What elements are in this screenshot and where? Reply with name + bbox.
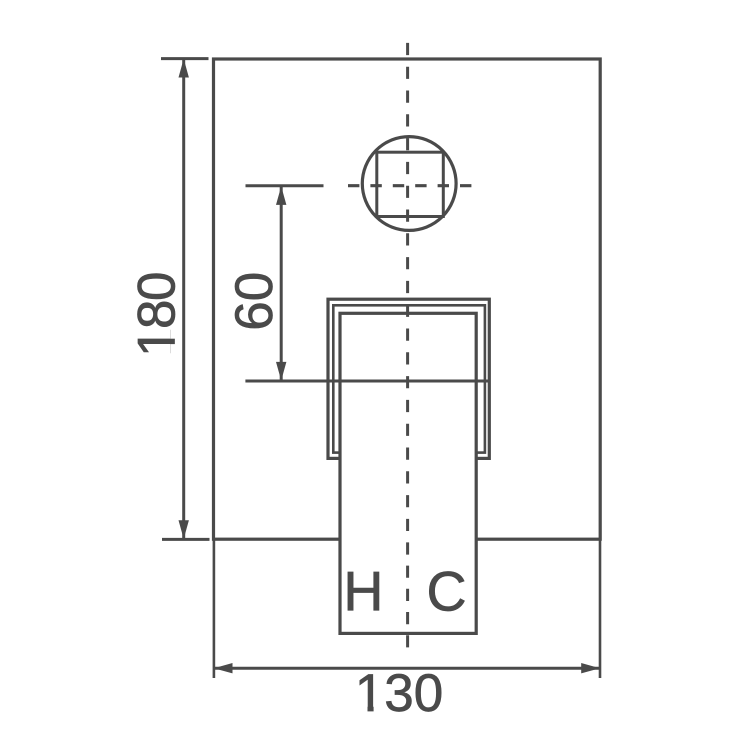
escutcheon outer square [328,299,489,458]
escutcheon inner square [333,305,485,452]
dimension 60 arrow up [276,186,286,205]
dimension 180 arrow down [179,520,189,539]
dimension 130 right extension line [599,540,602,678]
handle body [340,313,476,633]
svg-text:130: 130 [355,664,443,723]
svg-text:60: 60 [225,272,284,331]
dimension 60 arrow down [276,362,286,381]
dimension 60 line [280,186,283,380]
dimension 180 top tick [161,57,209,60]
dimension 60 bottom reference line [245,380,490,383]
diverter square insert [377,152,444,216]
dimension 130 arrow left [214,663,233,673]
svg-text:C: C [426,561,466,623]
vertical centerline [406,43,409,531]
dimension 130 left extension line [213,540,216,678]
dimension 60 top reference line [246,184,324,187]
vertical centerline lower segment [406,542,409,648]
dimension 130 line [214,667,600,670]
dimension 180 arrow up [179,59,189,78]
dimension 180 bottom tick [162,538,210,541]
svg-text:H: H [343,561,383,623]
dimension 180 line [182,59,185,539]
wall plate outline [214,59,601,539]
horizontal centerline through circle [348,184,472,187]
dimension 130 arrow right [581,663,600,673]
diverter circle [362,137,456,231]
